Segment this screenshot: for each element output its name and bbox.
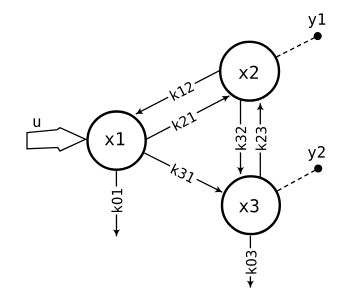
arrow k32 (x2 down to x3) [240,101,242,175]
arrow k21 (x1 to x2) [146,96,229,139]
wire: dashed observation line y1 [276,36,317,57]
compartment x2 [220,42,279,101]
node u label [34,118,41,127]
arrow k03 (x3 elimination) [249,236,251,288]
label x2 [239,66,258,79]
compartment x3 [222,176,280,234]
node y2 dot [314,164,322,172]
compartment x1 [88,112,146,170]
wire: dashed observation line y2 [278,169,318,191]
label k23 [255,124,267,152]
label y1 [308,13,325,28]
label k32 [235,124,247,152]
label x3 [239,199,258,212]
arrow k23 (x3 up to x2) [259,103,261,178]
wire: u input block arrow [27,128,86,151]
label k03 [245,248,257,276]
label k01 [111,187,123,215]
arrow k01 (x1 elimination) [115,170,117,236]
label y2 [308,146,325,161]
arrow k12 (x2 to x1) [136,71,220,115]
label k31 [167,161,199,185]
node y1 dot [314,32,322,40]
label k21 [168,109,200,134]
label x1 [105,132,124,145]
arrow k31 (x1 to x3) [145,153,223,192]
label k12 [166,79,198,103]
